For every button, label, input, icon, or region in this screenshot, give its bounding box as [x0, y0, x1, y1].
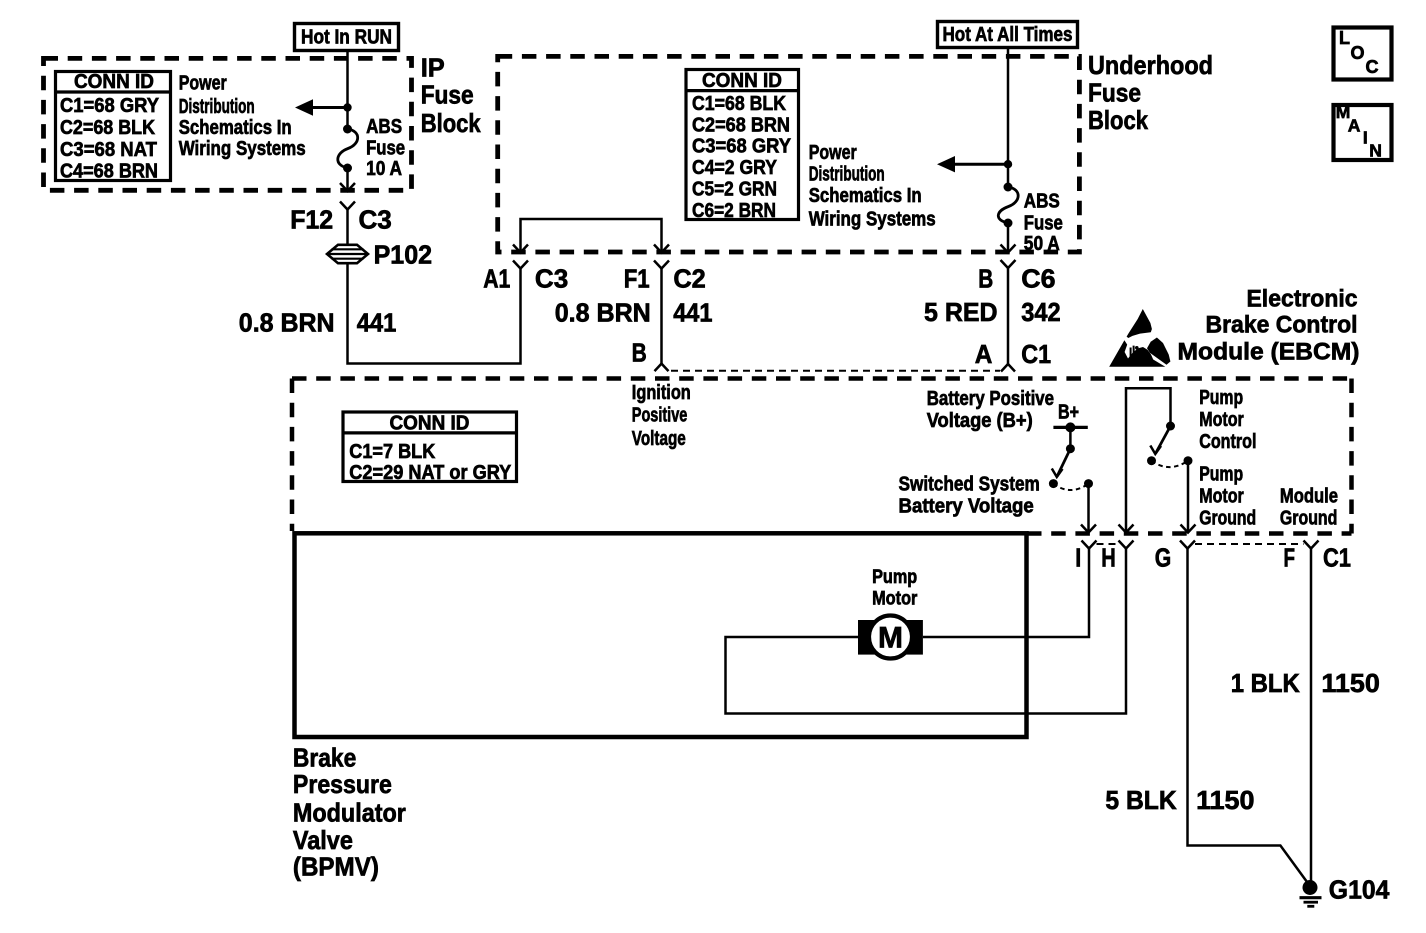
svg-text:0.8 BRN: 0.8 BRN	[239, 308, 335, 338]
wire label 5 RED	[924, 297, 998, 327]
svg-text:M: M	[878, 621, 903, 654]
svg-text:Underhood: Underhood	[1088, 50, 1213, 80]
pin label C2	[673, 264, 705, 294]
wire S2 output to pin G with arrow	[1181, 461, 1196, 533]
connector pin A1 / C3 fork	[513, 261, 528, 269]
net label "Switched System Battery Voltage"	[899, 474, 1040, 518]
svg-text:Switched System: Switched System	[899, 474, 1040, 496]
wire 441 from P102 down-right-up to A1	[348, 263, 521, 363]
svg-text:Battery Voltage: Battery Voltage	[899, 496, 1034, 518]
svg-text:Pump: Pump	[1199, 463, 1243, 485]
pin label I	[1075, 543, 1081, 573]
circuit number 441 (middle)	[673, 298, 712, 328]
Brake Pressure Modulator Valve (BPMV) label	[293, 743, 406, 882]
svg-text:C3: C3	[535, 264, 568, 294]
svg-text:(BPMV): (BPMV)	[293, 852, 379, 882]
svg-text:Voltage (B+): Voltage (B+)	[927, 410, 1033, 432]
svg-text:1 BLK: 1 BLK	[1231, 668, 1300, 698]
svg-text:5 BLK: 5 BLK	[1105, 785, 1177, 815]
svg-text:C: C	[1366, 57, 1379, 77]
svg-text:C1: C1	[1021, 339, 1051, 369]
svg-text:C1=68 BLK: C1=68 BLK	[692, 93, 786, 115]
label "Pump Motor"	[872, 567, 918, 609]
svg-text:Module (EBCM): Module (EBCM)	[1178, 339, 1360, 366]
circuit number 1150 (left)	[1196, 785, 1254, 815]
svg-text:Power: Power	[809, 142, 857, 164]
connector pin G fork	[1180, 541, 1195, 549]
pin label C6	[1021, 264, 1055, 294]
svg-text:Block: Block	[421, 108, 481, 138]
svg-text:L: L	[1339, 28, 1350, 48]
svg-text:Pressure: Pressure	[293, 769, 392, 799]
svg-text:G104: G104	[1329, 875, 1390, 905]
net label "Ignition Positive Voltage"	[632, 382, 691, 450]
wire pump motor control loop (pin H riser)	[1119, 388, 1171, 532]
fuse "ABS Fuse 10 A" (IP fuse block)	[338, 125, 358, 173]
svg-text:Wiring Systems: Wiring Systems	[179, 138, 306, 160]
svg-text:A: A	[1348, 115, 1361, 135]
svg-text:Motor: Motor	[1199, 485, 1244, 507]
svg-text:F12: F12	[290, 204, 333, 234]
pump motor M1	[858, 616, 923, 659]
pin label A1	[483, 264, 510, 294]
wire 1150 pin G to ground	[1188, 549, 1309, 885]
pin label A	[975, 339, 993, 369]
connector table CONN ID (IP fuse block)	[56, 71, 171, 183]
wire fuse output to IP block edge with arrow	[340, 168, 355, 191]
net label "Module Ground"	[1280, 485, 1338, 529]
svg-text:C3: C3	[359, 204, 392, 234]
switch S1 (B+ to switched battery voltage)	[1049, 427, 1093, 490]
svg-text:O: O	[1351, 43, 1365, 63]
svg-text:Ground: Ground	[1280, 507, 1338, 529]
svg-text:C4=2 GRY: C4=2 GRY	[692, 157, 778, 179]
svg-text:C3=68 NAT: C3=68 NAT	[60, 139, 157, 161]
svg-text:CONN ID: CONN ID	[702, 70, 782, 92]
svg-text:C5=2 GRN: C5=2 GRN	[692, 178, 777, 200]
power feed box "Hot In RUN"	[295, 24, 399, 51]
svg-text:I: I	[1075, 543, 1081, 573]
svg-text:C6=2 BRN: C6=2 BRN	[692, 200, 776, 222]
BPMV solid outline	[295, 533, 1027, 737]
svg-text:A: A	[975, 339, 993, 369]
circuit number 342	[1021, 297, 1060, 327]
connector pin H fork	[1119, 541, 1134, 549]
node B+ terminal bar	[1053, 422, 1087, 432]
svg-text:ABS: ABS	[1024, 190, 1060, 212]
connector pin F1 / C2 fork	[654, 261, 669, 364]
svg-text:C4=68 BRN: C4=68 BRN	[60, 161, 158, 183]
Underhood Fuse Block label	[1088, 50, 1213, 135]
svg-text:B+: B+	[1058, 401, 1079, 423]
pin label F12	[290, 204, 333, 234]
fuse "ABS Fuse 50 A" (Underhood fuse block)	[998, 183, 1018, 228]
label P102	[374, 240, 433, 270]
Underhood Fuse Block dashed outline	[498, 56, 1080, 252]
svg-text:Modulator: Modulator	[293, 798, 406, 828]
svg-text:Fuse: Fuse	[366, 138, 405, 160]
svg-text:441: 441	[673, 298, 712, 328]
svg-text:CONN ID: CONN ID	[390, 413, 470, 435]
MAIN reference box	[1334, 102, 1392, 161]
switch S2 (pump motor control)	[1147, 422, 1193, 468]
svg-text:ABS: ABS	[366, 116, 402, 138]
wire pump motor (-) to pin H	[726, 549, 1127, 714]
svg-text:Power: Power	[179, 72, 227, 94]
svg-text:Brake: Brake	[293, 743, 356, 773]
svg-text:Positive: Positive	[632, 405, 688, 427]
net label "Battery Positive Voltage (B+)"	[927, 388, 1054, 432]
svg-text:C2: C2	[673, 264, 705, 294]
splice pass-through P102	[327, 245, 368, 263]
svg-text:C2=68 BLK: C2=68 BLK	[60, 117, 155, 139]
pin label G	[1155, 543, 1172, 573]
wire S1 output to pin I with arrow	[1081, 484, 1096, 533]
pin label B (C6 row)	[978, 264, 993, 294]
svg-text:CONN ID: CONN ID	[74, 71, 154, 93]
circuit number 441 (left)	[357, 308, 397, 338]
connector pin F fork	[1304, 541, 1319, 549]
connector C1 thin dashed line B to A	[671, 370, 1000, 372]
svg-text:Ground: Ground	[1199, 507, 1256, 529]
ESD sensitive device symbol	[1109, 309, 1170, 367]
internal bus wire A1 to F1 inside Underhood block	[513, 219, 669, 253]
wire from Hot At All Times into Underhood fuse block	[1007, 48, 1010, 188]
connector pin B / C6 fork	[1001, 260, 1016, 364]
ground G104 symbol	[1300, 880, 1322, 906]
svg-text:342: 342	[1021, 297, 1060, 327]
svg-text:Motor: Motor	[872, 588, 918, 609]
wire label 0.8 BRN (middle)	[555, 298, 651, 328]
pin label H	[1101, 543, 1116, 573]
svg-text:C2=68 BRN: C2=68 BRN	[692, 114, 790, 136]
fuse label "ABS Fuse 10 A"	[366, 116, 405, 180]
connector label C1 (bottom)	[1323, 543, 1351, 573]
wire label 1 BLK	[1231, 668, 1300, 698]
svg-text:Ignition: Ignition	[632, 382, 691, 404]
svg-text:0.8 BRN: 0.8 BRN	[555, 298, 651, 328]
svg-text:C1=68 GRY: C1=68 GRY	[60, 95, 160, 117]
pin label C3	[359, 204, 392, 234]
connector table CONN ID (Underhood fuse block)	[686, 70, 799, 222]
ground label G104	[1329, 875, 1390, 905]
wire label 5 BLK	[1105, 785, 1177, 815]
svg-text:N: N	[1369, 141, 1382, 161]
svg-text:B: B	[632, 338, 647, 368]
svg-text:Voltage: Voltage	[632, 428, 686, 450]
svg-text:G: G	[1155, 543, 1172, 573]
wire from Hot In RUN into IP fuse block	[346, 51, 349, 130]
svg-text:50 A: 50 A	[1024, 233, 1060, 255]
svg-text:H: H	[1101, 543, 1116, 573]
label B+	[1058, 401, 1079, 423]
svg-text:1150: 1150	[1321, 668, 1379, 698]
svg-text:Hot At All Times: Hot At All Times	[943, 24, 1073, 46]
pin label B (ignition)	[632, 338, 647, 368]
EBCM pin A / C1 fork	[1001, 364, 1015, 372]
pin label C3 (A1 row)	[535, 264, 568, 294]
svg-text:C6: C6	[1021, 264, 1055, 294]
svg-text:Fuse: Fuse	[1088, 78, 1141, 108]
pin label C1 (A row)	[1021, 339, 1051, 369]
svg-text:Valve: Valve	[293, 825, 353, 855]
svg-text:I: I	[1363, 127, 1368, 147]
circuit number 1150 (right)	[1321, 668, 1379, 698]
svg-text:Distribution: Distribution	[179, 96, 255, 118]
svg-text:Electronic: Electronic	[1247, 285, 1358, 312]
power feed box "Hot At All Times"	[938, 22, 1078, 48]
IP Fuse Block dashed outline	[44, 58, 412, 190]
pin label F1	[624, 264, 650, 294]
svg-text:A1: A1	[483, 264, 510, 294]
wire label 0.8 BRN (left)	[239, 308, 335, 338]
svg-text:Pump: Pump	[1199, 387, 1243, 409]
svg-text:441: 441	[357, 308, 397, 338]
EBCM dashed outline	[292, 379, 1352, 534]
EBCM pin B fork (ignition input)	[655, 364, 669, 372]
note "Power Distribution Schematics In Wiring Systems" (Underhood)	[809, 142, 936, 230]
svg-text:Pump: Pump	[872, 567, 917, 588]
Electronic Brake Control Module (EBCM) label	[1178, 285, 1360, 365]
svg-text:IP: IP	[421, 52, 445, 82]
wire pin I to pump motor (+)	[923, 549, 1089, 638]
svg-text:Motor: Motor	[1199, 409, 1244, 431]
svg-text:C1: C1	[1323, 543, 1351, 573]
svg-text:Brake Control: Brake Control	[1206, 312, 1358, 339]
svg-text:Block: Block	[1088, 105, 1148, 135]
svg-text:F1: F1	[624, 264, 650, 294]
net label "Pump Motor Control"	[1199, 387, 1256, 453]
svg-text:Schematics In: Schematics In	[179, 117, 292, 139]
wire 1150 pin F to ground	[1310, 549, 1313, 885]
LOC reference box	[1334, 28, 1392, 80]
svg-text:Hot In RUN: Hot In RUN	[301, 27, 392, 49]
junction to power distribution arrow (IP)	[295, 99, 352, 115]
svg-text:B: B	[978, 264, 993, 294]
svg-text:Schematics In: Schematics In	[809, 185, 922, 207]
svg-text:C3=68 GRY: C3=68 GRY	[692, 136, 792, 158]
svg-text:C2=29 NAT or GRY: C2=29 NAT or GRY	[349, 462, 512, 484]
svg-text:P102: P102	[374, 240, 433, 270]
IP Fuse Block label	[421, 52, 481, 138]
svg-text:Fuse: Fuse	[421, 80, 474, 110]
connector pin I fork	[1082, 541, 1097, 549]
net label "Pump Motor Ground"	[1199, 463, 1256, 529]
connector C1 thin dashed line I to H	[1097, 543, 1119, 545]
connector pin F12 / C3 fork	[340, 202, 355, 245]
svg-text:5 RED: 5 RED	[924, 297, 998, 327]
svg-text:Control: Control	[1199, 431, 1256, 453]
svg-text:10 A: 10 A	[366, 158, 402, 180]
wire fuse output to Underhood block edge with arrow	[1001, 223, 1016, 253]
pin label F	[1284, 543, 1296, 573]
svg-text:Fuse: Fuse	[1024, 213, 1063, 235]
svg-text:Battery Positive: Battery Positive	[927, 388, 1054, 410]
connector C1 thin dashed line G to F	[1195, 543, 1304, 545]
svg-text:Wiring Systems: Wiring Systems	[809, 208, 936, 230]
svg-text:1150: 1150	[1196, 785, 1254, 815]
svg-text:Module: Module	[1280, 485, 1338, 507]
svg-text:F: F	[1284, 543, 1296, 573]
junction to power distribution arrow (Underhood)	[937, 156, 1012, 172]
svg-text:Distribution: Distribution	[809, 164, 885, 186]
connector table CONN ID (EBCM)	[343, 412, 517, 484]
svg-text:C1=7 BLK: C1=7 BLK	[349, 441, 436, 463]
note "Power Distribution Schematics In Wiring Systems" (IP)	[179, 72, 306, 160]
fuse label "ABS Fuse 50 A"	[1024, 190, 1063, 255]
